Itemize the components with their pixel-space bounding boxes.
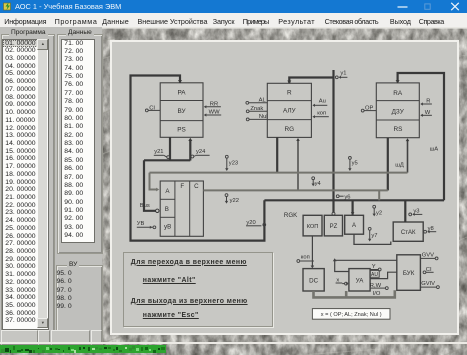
- wire drop from bus3 into register A: [352, 200, 354, 214]
- node Bus circle: [156, 209, 159, 212]
- arrowhead into A cell: [156, 188, 159, 192]
- wire R tap: [421, 103, 432, 105]
- node y7 circle: [368, 227, 371, 230]
- svg-text:GVIV: GVIV: [421, 281, 435, 287]
- svg-text:RA: RA: [393, 90, 403, 97]
- green taskbar strip: [0, 345, 166, 353]
- svg-text:коп: коп: [317, 111, 326, 117]
- wire y21 underline: [154, 154, 164, 156]
- wire УА path to БУК upper: [335, 259, 397, 261]
- wire R,W tap: [370, 287, 385, 289]
- menu bar: [0, 13, 467, 27]
- node y5 circle: [349, 157, 352, 160]
- wire y24 underline: [196, 154, 210, 156]
- node GVV circle: [435, 257, 438, 260]
- wire down to Bus node: [144, 160, 156, 211]
- wire CI tap: [148, 109, 160, 111]
- arrowhead R into ДЗУ: [420, 102, 423, 105]
- wire y24 link: [194, 155, 195, 158]
- svg-text:y21: y21: [154, 149, 163, 155]
- U1 row divider ВУ/PS: [160, 120, 203, 122]
- node Y circle: [378, 268, 381, 271]
- arrowhead y23 onto bus1: [225, 168, 228, 171]
- register КОП of RGK: [303, 215, 322, 236]
- wire коп tap: [300, 260, 314, 262]
- node y6 circle: [336, 195, 339, 198]
- svg-text:шА: шА: [430, 147, 439, 153]
- wire RS input stub from bus1: [407, 140, 409, 173]
- wire y1 underline: [339, 76, 347, 78]
- wire y4: [312, 180, 314, 185]
- group box ВУ: [56, 265, 104, 346]
- arrowhead y22: [225, 201, 228, 204]
- wire drop from bus3 into СтАК top: [404, 200, 406, 222]
- wire y22: [226, 197, 228, 203]
- wire ДЗУ шД stub through bus1 to bus2: [387, 138, 389, 191]
- wire Au tap: [313, 104, 327, 106]
- svg-text:Bus: Bus: [140, 203, 150, 209]
- ALU block U2 (R/АЛУ/RG): [267, 83, 311, 137]
- node PZ top circle: [332, 212, 335, 215]
- arrowhead x into УА: [346, 282, 348, 285]
- svg-text:y5: y5: [352, 160, 358, 166]
- wire GVV tap: [420, 257, 435, 259]
- svg-text:y22: y22: [230, 198, 239, 204]
- wire y2: [373, 208, 375, 215]
- arrowhead RR into U1: [204, 105, 207, 108]
- svg-text:СтАК: СтАК: [401, 230, 416, 236]
- wire RG output stub to bus1: [276, 137, 278, 172]
- svg-text:PS: PS: [177, 126, 186, 133]
- node CI circle: [145, 109, 148, 112]
- node y20 circle: [263, 223, 266, 226]
- svg-text:коп: коп: [301, 255, 310, 261]
- svg-text:RG: RG: [285, 126, 295, 133]
- arrowhead WW into U1: [204, 113, 207, 116]
- svg-text:B: B: [165, 206, 169, 213]
- wire bus1 tap into console A cell: [150, 173, 158, 190]
- wire corner down to УА left: [335, 260, 349, 271]
- U4 column divider left: [174, 181, 176, 236]
- decoder DC: [303, 269, 324, 291]
- node CI circle БУК: [423, 271, 426, 274]
- svg-text:y7: y7: [371, 233, 377, 239]
- bottom small boxes: [1, 330, 39, 345]
- svg-text:уВ: уВ: [164, 224, 171, 231]
- wire RR tap: [205, 106, 221, 108]
- memory block U3 ДЗУ (RA/ДЗУ/RS): [376, 83, 419, 138]
- wire W tap: [421, 114, 432, 116]
- wire y23: [226, 158, 228, 169]
- wire mid vertical bus y1-PZ: [332, 70, 334, 213]
- svg-text:A: A: [165, 188, 170, 195]
- wire y20 underline: [246, 225, 261, 227]
- wire bus2 y=190: [203, 189, 387, 191]
- wire WW tap: [205, 114, 221, 116]
- svg-text:PA: PA: [177, 90, 186, 97]
- svg-text:БУК: БУК: [403, 270, 415, 277]
- wire y6 link: [339, 195, 344, 197]
- wire bottom bus branch to УА: [345, 291, 348, 297]
- U4 row divider B/уВ: [160, 216, 175, 218]
- wire PS input stub: [189, 140, 191, 161]
- group box Программа: [1, 34, 56, 346]
- wire A register bottom to СтАК bottom: [354, 234, 391, 244]
- wire PS output stub: [169, 137, 171, 159]
- arrowhead into DC top: [311, 266, 315, 269]
- control unit УА: [349, 269, 370, 291]
- wire jog bus2 to bus3: [378, 190, 380, 200]
- arrowhead коп into АЛУ: [312, 115, 315, 118]
- diagram panel: [110, 40, 459, 335]
- wire УА step to БУК: [370, 272, 397, 278]
- wire y3 underline: [413, 213, 422, 215]
- left column background: [0, 27, 102, 343]
- group box Данные: [57, 34, 103, 254]
- wire GVIV tap: [420, 286, 436, 288]
- svg-text:y24: y24: [196, 149, 206, 155]
- arrowhead into RS bottom: [406, 138, 410, 141]
- svg-text:AU: AU: [371, 272, 378, 278]
- svg-text:R: R: [287, 90, 292, 97]
- node R,W circle: [385, 287, 388, 290]
- wire y21 link: [164, 155, 167, 157]
- wire коп tap: [313, 116, 328, 118]
- arrowhead W into ДЗУ: [420, 114, 423, 117]
- arrowhead УВ: [150, 226, 152, 229]
- arrowhead Au into АЛУ: [312, 104, 315, 107]
- svg-text:I/O: I/O: [373, 291, 381, 297]
- U4 row divider A/B: [160, 198, 175, 200]
- node y8 circle: [424, 230, 427, 233]
- node y21 circle: [167, 156, 170, 159]
- box AU label: [370, 270, 379, 277]
- svg-text:y1: y1: [340, 71, 346, 77]
- U4 column divider F/C: [189, 181, 191, 236]
- node ОР circle: [361, 109, 364, 112]
- arrowhead y1: [339, 76, 341, 79]
- wire bus from U1 PA top down left side to node y20 riser: [131, 76, 265, 241]
- U3 row divider RA/ДЗУ: [376, 100, 419, 102]
- bottom white line: [0, 342, 467, 344]
- node y22 circle: [225, 194, 228, 197]
- svg-text:F: F: [180, 183, 184, 190]
- svg-text:y20: y20: [246, 220, 255, 226]
- node y3 circle: [409, 213, 412, 216]
- console block U4 (A/B/уВ/F/C): [160, 181, 203, 236]
- wire x link: [342, 283, 345, 285]
- svg-text:GVV: GVV: [422, 253, 434, 259]
- svg-text:УВ: УВ: [137, 221, 145, 227]
- arrowhead y5 onto bus1: [348, 168, 351, 171]
- svg-text:КОП: КОП: [307, 224, 319, 230]
- svg-text:y6: y6: [344, 195, 350, 201]
- node Nul circle: [246, 118, 249, 121]
- svg-text:C: C: [194, 183, 199, 190]
- wire y5: [349, 159, 351, 169]
- svg-text:ВУ: ВУ: [177, 108, 186, 115]
- wire bus3 horizontal y=200: [264, 199, 444, 201]
- svg-text:ДЗУ: ДЗУ: [392, 108, 405, 115]
- arrowhead y7: [368, 239, 371, 242]
- arrowhead into R top: [287, 81, 291, 84]
- node y4 circle: [312, 177, 315, 180]
- wire КОП to DC: [311, 236, 313, 268]
- block БУК: [397, 255, 421, 290]
- wire Y tap: [370, 269, 378, 271]
- wire bus1 y=172: [150, 172, 408, 174]
- node коп circle: [297, 260, 300, 263]
- junction arrow on БУК wire: [333, 258, 337, 261]
- arrowhead y3: [412, 213, 414, 216]
- svg-text:RS: RS: [394, 126, 403, 133]
- arrowhead y4 onto bus2: [312, 183, 315, 186]
- arrowhead into RA top: [396, 80, 400, 83]
- wire УВ tap: [137, 226, 153, 228]
- node УВ circle: [153, 226, 156, 229]
- arrowhead into RG bottom: [296, 138, 300, 141]
- svg-text:Au: Au: [319, 98, 326, 104]
- node Znak circle: [246, 110, 249, 113]
- window title bar: [0, 0, 467, 13]
- wire ОР tap: [364, 110, 376, 112]
- wire RG input stub from bus2: [297, 140, 299, 191]
- wire Nul tap: [249, 118, 267, 120]
- svg-text:x = ( OP; AL; Znak; Nul ): x = ( OP; AL; Znak; Nul ): [321, 312, 382, 318]
- svg-text:y4: y4: [315, 181, 322, 187]
- wire bottom bus DC-БУК: [314, 290, 395, 297]
- svg-text:y2: y2: [376, 210, 382, 216]
- wire y7: [369, 230, 371, 240]
- node y2 circle: [373, 205, 376, 208]
- wire from R top to mid vertical bus: [289, 78, 333, 84]
- register PZ of RGK: [324, 215, 342, 236]
- U2 row divider R/АЛУ: [267, 100, 311, 102]
- register block U1 ВУ (PA/ВУ/PS): [160, 83, 203, 138]
- arrowhead y2: [373, 214, 376, 217]
- register A of RGK: [345, 215, 364, 234]
- arrowhead into PA top: [178, 80, 182, 83]
- node AL circle: [246, 101, 249, 104]
- legend box x definition: [312, 309, 390, 320]
- instruction panel: [123, 252, 273, 327]
- svg-text:шД: шД: [395, 162, 404, 168]
- wire AL tap: [249, 102, 267, 104]
- svg-text:A: A: [352, 223, 356, 229]
- wire CI tap БУК: [426, 271, 434, 273]
- svg-text:УА: УА: [356, 277, 365, 284]
- node x circle: [345, 282, 348, 285]
- wire y8 underline: [428, 231, 436, 233]
- U3 row divider ДЗУ/RS: [376, 119, 419, 121]
- stack block СтАК: [393, 222, 423, 241]
- wire x underline: [336, 282, 343, 284]
- arrowhead into PS bottom: [188, 138, 192, 141]
- U1 row divider PA/ВУ: [160, 100, 203, 102]
- arrowhead into A top: [351, 212, 355, 215]
- node y1 circle: [335, 76, 338, 79]
- wire bar under PS: [144, 159, 190, 161]
- node GVIV circle: [437, 286, 440, 289]
- svg-text:АЛУ: АЛУ: [283, 108, 297, 115]
- svg-text:RGK: RGK: [284, 212, 298, 219]
- arrowhead y8: [427, 230, 429, 233]
- svg-text:PZ: PZ: [330, 224, 338, 230]
- svg-text:DC: DC: [309, 277, 318, 284]
- U2 row divider АЛУ/RG: [267, 119, 311, 121]
- wire Znak tap: [249, 110, 267, 112]
- svg-text:y23: y23: [229, 160, 238, 166]
- node y24 circle: [191, 155, 194, 158]
- node y23 circle: [225, 155, 228, 158]
- wire шА right vertical to RA top: [398, 73, 444, 200]
